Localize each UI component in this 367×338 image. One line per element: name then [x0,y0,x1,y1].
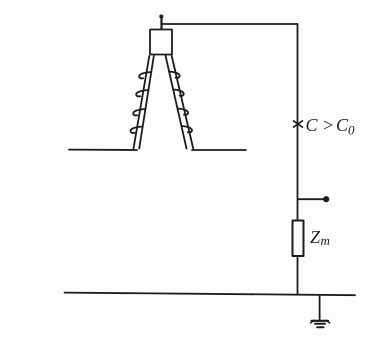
bushing cone left outer line [134,56,150,149]
right shed 1 [169,72,180,78]
bushing cone right inner line [166,56,187,149]
bushing top terminal stem [160,16,162,29]
ground symbol bar 2 [315,323,325,325]
bushing cone right outer line [172,56,194,149]
ground stub wire [319,295,321,321]
left shed 2 [136,90,148,96]
right shed 3 [178,109,189,115]
tap terminal dot [323,196,329,202]
right shed 4 [181,126,192,132]
wire right vertical branch [297,24,299,294]
deck line right [192,149,246,151]
ground symbol wing left [311,320,315,323]
bushing cap [150,30,172,55]
deck line left [69,149,137,151]
svg-text:C > C0: C > C0 [306,115,356,138]
ground symbol bar 3 [317,326,323,328]
bushing cone left inner line [139,56,154,149]
tap wire [298,198,325,200]
bottom bus wire [65,293,356,296]
ground symbol wing right [326,320,330,323]
ground symbol bar 1 [312,320,329,322]
capacitance x mark [294,121,303,127]
wire from terminal to right branch [162,23,298,25]
svg-text:Zm: Zm [310,227,330,248]
left shed 3 [133,109,145,115]
left shed 1 [139,72,151,78]
bushing terminal tip blob [159,15,163,19]
right shed 2 [173,90,184,96]
impedance Zm box [293,221,304,257]
left shed 4 [131,127,143,133]
